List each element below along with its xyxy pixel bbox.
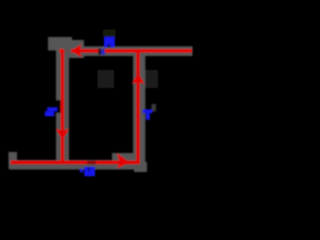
gray halo left cap of bottom wire [9, 152, 18, 169]
label top (blue blob) [104, 37, 115, 47]
gray halo of right vertical wire [133, 52, 145, 162]
faint artifact block right of up arrow [143, 70, 158, 88]
gray artifact above right label [152, 104, 157, 112]
arrow left (top wire) [71, 44, 81, 58]
label right stem [146, 113, 150, 120]
wire right vertical [136, 50, 139, 164]
gray halo around left arrow [66, 40, 84, 58]
gray halo of bottom wire (below) [10, 160, 140, 170]
label left bar1 [47, 107, 57, 111]
wire bottom horizontal [11, 161, 140, 165]
faint artifact block left of up arrow [98, 70, 115, 88]
gray halo around right arrow [112, 153, 135, 168]
gray halo of left vertical wire [56, 47, 69, 166]
arrow down (left vertical) [56, 129, 70, 140]
dark dull patch on bottom wire above label [87, 161, 96, 165]
blue descender on top wire [101, 49, 105, 55]
gray halo of top wire [59, 46, 193, 56]
label left bar2 [45, 111, 55, 116]
label bottom dash [80, 169, 83, 172]
gray dull gap on top wire after corner [64, 49, 71, 53]
gray halo below bottom-right corner [134, 162, 147, 172]
gray halo corner block top-left [48, 37, 72, 51]
wire left vertical [61, 49, 64, 164]
notch in bottom label [88, 167, 90, 172]
label bottom main blob [84, 167, 95, 176]
dark olive artifact above top label [103, 30, 116, 38]
notch in top label [108, 44, 110, 47]
dark gap left of blue descender [98, 49, 100, 55]
arrow up (right vertical) [132, 73, 145, 84]
arrow right (bottom wire) [116, 153, 129, 169]
wire top horizontal [60, 49, 193, 53]
label right bar [143, 109, 153, 113]
black gap in left vertical halo [56, 100, 61, 113]
